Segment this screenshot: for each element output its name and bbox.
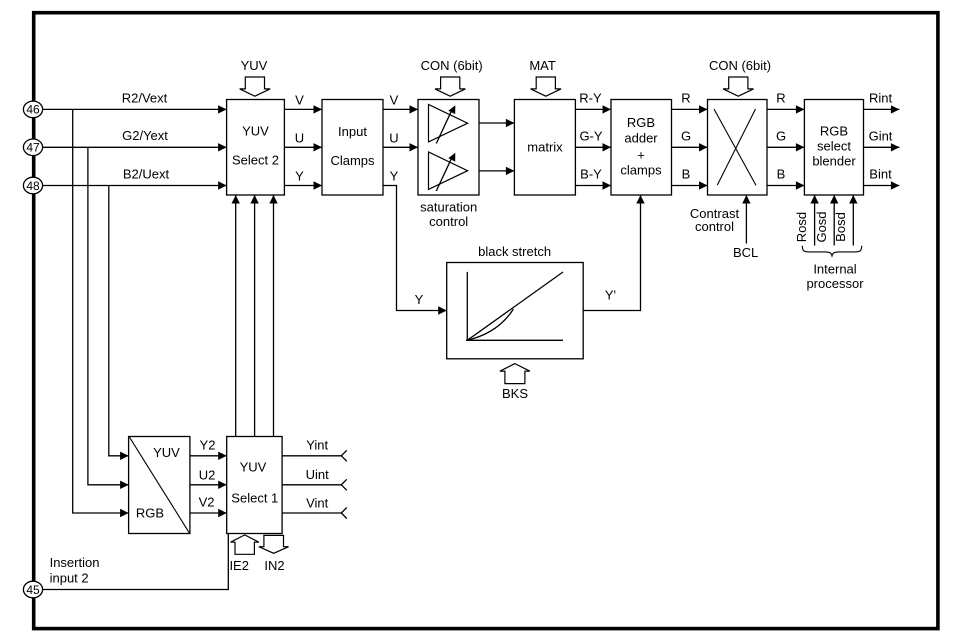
control arrow CON (6bit) above contrast [709,58,771,96]
svg-text:YUV: YUV [242,124,269,139]
pin 46 [23,101,42,118]
wire Gosd into blender [814,195,839,246]
svg-text:U2: U2 [199,467,216,482]
svg-text:U: U [295,130,304,145]
svg-text:Uint: Uint [306,467,330,482]
wire Vint output [282,496,347,519]
svg-text:Vint: Vint [306,496,329,511]
svg-text:Yint: Yint [306,438,328,453]
svg-text:YUV: YUV [241,58,268,73]
black stretch curve [467,309,513,340]
block RGB select blender [804,100,863,196]
wire Select1 to Select2 (2) [250,195,258,437]
svg-text:45: 45 [26,583,40,597]
svg-text:adder: adder [624,130,658,145]
control arrow MAT above matrix [529,58,561,96]
svg-text:RGB: RGB [627,115,655,130]
svg-text:CON (6bit): CON (6bit) [709,58,771,73]
wire Select1 to Select2 (3) [269,195,277,437]
block contrast multiplier [708,100,768,196]
wire Bint output [864,167,900,190]
wire G-Y matrix to RGB adder [575,128,611,151]
wire V2 converter to Select 1 [190,494,227,517]
wire Y' black stretch to RGB adder [583,195,645,311]
svg-text:Y: Y [415,292,424,307]
wire BCL into contrast block [733,195,758,260]
wire U2 converter to Select 1 [190,467,227,489]
svg-text:47: 47 [26,141,40,155]
wire Y Select2 to Input Clamps [284,169,322,190]
wire R-Y matrix to RGB adder [575,91,611,114]
wire G contrast to blender [767,128,804,151]
wire U Select2 to Input Clamps [284,130,322,151]
amplifier triangle 2 with gain arrow [429,152,468,191]
pin 45 [23,581,42,598]
svg-text:black stretch: black stretch [478,244,551,259]
wire Uint output [282,467,347,490]
svg-text:R: R [776,91,785,106]
control arrow IN2 below Select 1 [259,535,289,573]
svg-text:RGB: RGB [820,124,848,139]
wire B-Y matrix to RGB adder [575,167,611,190]
svg-text:CON (6bit): CON (6bit) [421,58,483,73]
svg-text:Rint: Rint [869,91,893,106]
wire Rint output [864,91,900,114]
label Insertion input 2 [50,555,100,586]
black stretch transfer line [467,272,563,340]
svg-text:V2: V2 [199,494,215,509]
svg-text:G-Y: G-Y [579,128,602,143]
block matrix [514,100,575,196]
wire R adder to contrast [672,91,708,114]
wire Select1 to Select2 (1) [232,195,240,437]
svg-text:saturation: saturation [420,200,477,215]
wire G adder to contrast [672,128,708,151]
svg-text:YUV: YUV [153,445,180,460]
wire tap U to YUV-RGB converter [109,186,129,461]
svg-text:46: 46 [26,103,40,117]
svg-text:Insertion: Insertion [50,555,100,570]
wire B contrast to blender [767,167,804,190]
svg-text:MAT: MAT [529,58,556,73]
wire U Clamps to saturation [383,130,418,151]
wire Y2 converter to Select 1 [190,437,227,460]
wire saturation to matrix (U) [479,167,514,175]
svg-text:select: select [817,139,851,154]
block YUV Select 1 [227,437,282,534]
svg-text:B-Y: B-Y [580,167,602,182]
svg-text:Clamps: Clamps [330,153,375,168]
svg-text:input 2: input 2 [50,570,89,585]
svg-text:U: U [389,130,398,145]
wire Rosd into blender [794,195,819,246]
wire Y Clamps down to black stretch [383,169,447,315]
control arrow BKS below black stretch [500,364,530,401]
control arrow IE2 below Select 1 [229,535,258,573]
block saturation control [418,100,479,230]
amplifier triangle 1 with gain arrow [429,104,468,143]
wire V Select2 to Input Clamps [284,92,322,113]
svg-text:R: R [681,91,690,106]
svg-text:clamps: clamps [620,163,662,178]
svg-text:IE2: IE2 [229,558,249,573]
block RGB adder + clamps [611,100,672,196]
svg-text:IN2: IN2 [264,558,284,573]
svg-text:Rosd: Rosd [794,212,809,242]
svg-text:B: B [777,167,786,182]
svg-text:Gosd: Gosd [814,211,829,242]
svg-text:blender: blender [812,154,856,169]
block black stretch [447,244,584,359]
wire B2/Uext from pin 48 to YUV Select 2 [42,166,227,189]
svg-text:V: V [390,92,399,107]
svg-text:YUV: YUV [240,459,267,474]
wire saturation to matrix (V) [479,119,514,127]
wire G2/Yext from pin 47 to YUV Select 2 [42,128,227,151]
svg-text:control: control [429,214,468,229]
svg-text:R-Y: R-Y [579,91,602,106]
wire V Clamps to saturation [383,92,418,113]
svg-text:Input: Input [338,124,367,139]
wire insertion input from pin 45 [42,534,228,590]
block Input Clamps [322,100,383,196]
svg-text:matrix: matrix [527,140,563,155]
svg-text:G: G [776,128,786,143]
svg-text:48: 48 [26,179,40,193]
pin 48 [23,177,42,194]
svg-text:BKS: BKS [502,386,528,401]
block YUV Select 2 [227,100,285,196]
wire R2/Vext from pin 46 to YUV Select 2 [42,90,227,113]
brace Internal processor [802,246,864,291]
svg-text:Select 1: Select 1 [231,491,278,506]
svg-text:V: V [295,92,304,107]
svg-text:G2/Yext: G2/Yext [122,128,168,143]
control arrow YUV above Select 2 [240,58,270,96]
black stretch graph axes [466,272,563,340]
wire Gint output [864,128,900,151]
svg-text:Select 2: Select 2 [232,153,279,168]
control arrow CON (6bit) above saturation [421,58,483,96]
svg-text:Y: Y [390,169,399,184]
wire R contrast to blender [767,91,804,114]
svg-text:Bint: Bint [869,167,892,182]
pin 47 [23,139,42,156]
svg-text:Y2: Y2 [200,437,216,452]
wire B adder to contrast [672,167,708,190]
svg-text:control: control [695,219,734,234]
svg-text:RGB: RGB [136,505,164,520]
svg-text:B: B [682,167,691,182]
wire tap Y to YUV-RGB converter [88,147,129,489]
label Contrast control [690,206,740,234]
svg-text:Y': Y' [605,287,616,302]
svg-text:Y: Y [295,169,304,184]
svg-text:B2/Uext: B2/Uext [123,166,170,181]
wire tap V to YUV-RGB converter [73,109,129,517]
block YUV to RGB converter [129,437,190,534]
svg-text:processor: processor [806,276,864,291]
svg-text:Gint: Gint [869,128,893,143]
svg-text:R2/Vext: R2/Vext [122,90,168,105]
wire Bosd into blender [833,195,858,246]
wire Yint output [282,438,347,462]
svg-text:+: + [637,148,645,163]
svg-text:Bosd: Bosd [833,212,848,242]
svg-text:Internal: Internal [813,262,856,277]
svg-text:G: G [681,128,691,143]
svg-text:BCL: BCL [733,245,758,260]
